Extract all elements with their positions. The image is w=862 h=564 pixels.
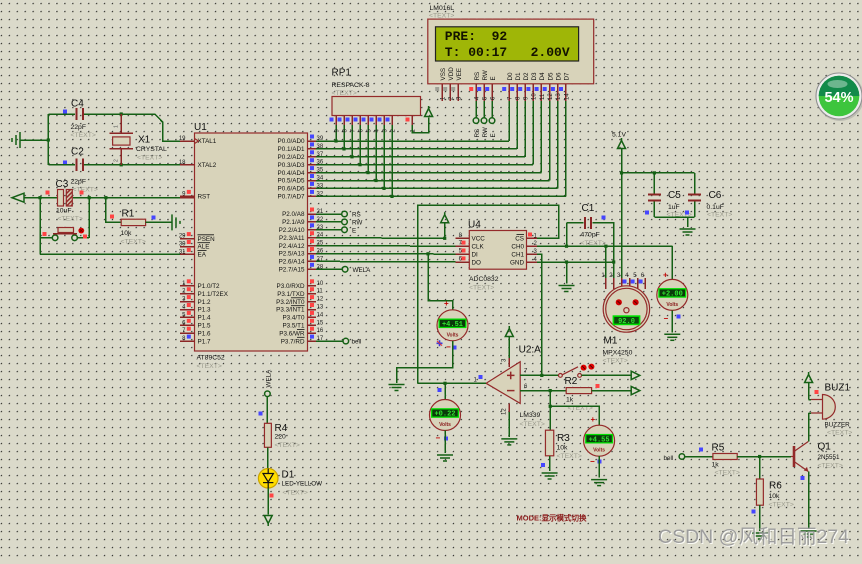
junction M1 pin1/CH0 — [604, 245, 607, 248]
svg-text:<TEXT>: <TEXT> — [769, 502, 794, 509]
svg-text:+: + — [591, 415, 596, 424]
switch (on comparator output 7) — [559, 364, 595, 378]
voltmeter +0.22 (comparator out) — [430, 400, 461, 431]
svg-text:AT89C52: AT89C52 — [197, 355, 225, 362]
pressure sensor M1 MPX4250 — [601, 246, 649, 364]
svg-text:P3.1/TXD: P3.1/TXD — [277, 291, 305, 298]
svg-text:P0.3/AD3: P0.3/AD3 — [278, 162, 305, 169]
crystal X1 — [109, 114, 167, 165]
svg-text:−: − — [446, 343, 451, 352]
svg-text:RS: RS — [474, 129, 481, 138]
svg-text:<TEXT>: <TEXT> — [603, 358, 628, 365]
svg-text:−: − — [590, 457, 595, 466]
wire LCD D7 column — [565, 101, 567, 196]
svg-text:P3.4/T0: P3.4/T0 — [282, 315, 305, 322]
node RS terminal (U1 side) — [342, 211, 348, 217]
junction RP1/P0.0 — [334, 139, 337, 142]
wire U4 CS to comparator output — [418, 205, 559, 383]
svg-text:12: 12 — [548, 93, 554, 100]
junction pin6/R3 branch — [549, 389, 552, 392]
svg-text:P3.0/RXD: P3.0/RXD — [277, 283, 305, 290]
svg-text:VSS: VSS — [440, 68, 447, 81]
capacitor C3 (polarized 10uF) — [56, 179, 83, 223]
wire C4 left — [48, 113, 75, 115]
wire RP1 pin1 to power — [412, 117, 429, 132]
svg-text:D5: D5 — [547, 72, 554, 81]
wire RP1 pin 6 drop — [359, 125, 361, 165]
wire R3 to ground — [549, 456, 551, 471]
wire voltmeter to ground — [444, 431, 446, 454]
wire LCD D6 column — [557, 101, 559, 188]
node RW terminal — [481, 118, 487, 124]
resistor R2 — [565, 376, 593, 412]
svg-text:VDD: VDD — [448, 67, 455, 81]
svg-text:CS: CS — [515, 236, 524, 243]
svg-text:<TEXT>: <TEXT> — [827, 430, 852, 437]
svg-text:P1.3: P1.3 — [198, 307, 211, 314]
wire power to VCC junction — [444, 223, 446, 239]
svg-text:16: 16 — [317, 328, 324, 334]
wire P3.7 to bell terminal — [316, 340, 343, 342]
push button (reset) — [40, 228, 89, 241]
svg-text:RW: RW — [482, 127, 489, 137]
node WELA terminal (LED side) — [265, 391, 271, 397]
wire C1 right to GND row / M1 pin2 — [593, 223, 614, 288]
svg-text:10k: 10k — [121, 230, 133, 237]
svg-text:12: 12 — [317, 297, 324, 303]
wire pin6 to R2 — [520, 390, 566, 392]
svg-text:54%: 54% — [824, 90, 853, 106]
svg-text:bell: bell — [664, 455, 674, 462]
wire RP1 pin 3 drop — [383, 125, 385, 188]
svg-text:P0.5/AD5: P0.5/AD5 — [278, 178, 305, 185]
svg-text:RW: RW — [482, 70, 489, 80]
svg-text:Volts: Volts — [666, 302, 678, 308]
junction RP1/P0.2 — [350, 155, 353, 158]
svg-text:D6: D6 — [556, 72, 563, 81]
junction C3/EA branch — [38, 196, 41, 199]
svg-text:19: 19 — [179, 136, 186, 142]
svg-text:D7: D7 — [564, 72, 571, 81]
svg-text:<TEXT>: <TEXT> — [73, 187, 98, 194]
junction output/voltmeter — [443, 382, 446, 385]
svg-text:<TEXT>: <TEXT> — [715, 470, 740, 477]
svg-text:R6: R6 — [769, 481, 782, 492]
ground (U2 pin12) — [501, 439, 517, 445]
ground (R6) — [752, 533, 768, 539]
wire P2 to RS terminal — [316, 213, 342, 215]
resistor R1 — [106, 198, 172, 246]
wire to ground — [687, 217, 689, 227]
svg-text:13: 13 — [556, 93, 562, 100]
svg-text:M1: M1 — [604, 336, 618, 347]
wire +4.55 voltmeter to ground — [598, 456, 600, 477]
svg-text:P0.1/AD1: P0.1/AD1 — [278, 146, 305, 153]
svg-text:<TEXT>: <TEXT> — [121, 239, 146, 246]
junction RP1/P0.6 — [382, 187, 385, 190]
svg-text:22pF: 22pF — [71, 124, 87, 131]
svg-text:P2.7/A15: P2.7/A15 — [279, 267, 305, 274]
junction button branch — [88, 196, 91, 199]
wire LCD RW to terminal — [483, 101, 485, 118]
wire RP1 pin 4 drop — [375, 125, 377, 181]
wire pin3 to power — [508, 337, 510, 359]
svg-text:CH0: CH0 — [511, 244, 524, 251]
LCD display LM016L — [428, 5, 594, 101]
resistor pack RP1 RESPACK-8 — [330, 68, 421, 133]
svg-text:+4.51: +4.51 — [442, 321, 463, 329]
voltmeter +4.51 (DI line) — [437, 310, 468, 341]
power terminal (BUZ1) — [805, 372, 813, 383]
wire to +4.55 voltmeter — [550, 406, 599, 425]
svg-text:+: + — [663, 271, 668, 280]
resistor R5 — [712, 443, 740, 477]
wire C2 right to XTAL2 — [84, 164, 180, 166]
resistor R6 — [756, 479, 793, 509]
ground (+2.00 voltmeter) — [664, 334, 680, 340]
svg-text:14: 14 — [564, 93, 570, 100]
svg-text:11: 11 — [540, 93, 546, 100]
wire RP1 pin 7 drop — [351, 125, 353, 157]
wire CH0 to voltmeter — [671, 246, 673, 279]
wire R6 to ground — [759, 505, 761, 531]
wire output to voltmeter + — [444, 383, 446, 399]
capacitor C1 470pF — [581, 203, 606, 247]
wire to R6 — [759, 457, 761, 480]
svg-text:U2:A: U2:A — [519, 345, 542, 356]
svg-text:<TEXT>: <TEXT> — [58, 216, 83, 223]
ground (C5/C6) — [680, 229, 696, 235]
svg-text:GND: GND — [510, 259, 524, 266]
wire left vertical to EA — [39, 198, 41, 255]
svg-text:P2.3/A11: P2.3/A11 — [279, 235, 305, 242]
svg-text:14: 14 — [317, 312, 324, 318]
svg-text:10k: 10k — [557, 445, 569, 452]
junction C5 top — [653, 171, 656, 174]
wire pin27 to U4 DO — [316, 260, 455, 263]
wire P0.1 bus row — [316, 148, 517, 150]
54% progress button — [816, 73, 862, 121]
node bell terminal (R5 side) — [679, 454, 685, 460]
svg-text:P1.6: P1.6 — [198, 330, 211, 337]
wire P0.5 bus row — [316, 180, 550, 182]
svg-text:E: E — [490, 76, 497, 80]
junction DI/voltmeter branch — [426, 252, 429, 255]
svg-text:C1: C1 — [582, 203, 595, 214]
wire pin25 to U4 CLK — [316, 245, 455, 248]
wire Q1 emitter to ground — [808, 472, 810, 530]
svg-text:P0.6/AD6: P0.6/AD6 — [278, 186, 305, 193]
wire 5.1V rail down to M1 pin3 — [621, 149, 623, 288]
wire P0.2 bus row — [316, 156, 525, 158]
wire Q1 collector to buzzer — [808, 413, 810, 442]
capacitor C6 0.1uF — [688, 173, 732, 219]
svg-text:ALE: ALE — [198, 244, 210, 251]
svg-text:P3.7/RD: P3.7/RD — [281, 338, 305, 345]
svg-text:30: 30 — [179, 242, 186, 248]
wire LCD D3 column — [532, 101, 534, 165]
wire bell to R5 — [685, 456, 713, 458]
svg-text:−: − — [664, 314, 669, 323]
wire CH1 to comparator pin7 — [537, 254, 542, 375]
svg-text:E: E — [352, 227, 356, 234]
svg-text:XTAL2: XTAL2 — [198, 162, 217, 169]
svg-text:<TEXT>: <TEXT> — [283, 490, 308, 497]
svg-text:R2: R2 — [565, 376, 578, 387]
svg-text:P2.0/A8: P2.0/A8 — [282, 211, 305, 218]
svg-text:RS: RS — [474, 72, 481, 81]
svg-text:MODE:显示模式切换: MODE:显示模式切换 — [517, 513, 587, 523]
svg-text:22pF: 22pF — [71, 179, 87, 186]
svg-text:<TEXT>: <TEXT> — [469, 285, 494, 292]
power terminal (D1 cathode, down) — [264, 516, 272, 527]
ground (Q1 emitter) — [801, 531, 817, 537]
wire LCD D0 column — [508, 101, 510, 141]
node output arrow (pin6) — [631, 386, 640, 394]
svg-text:<TEXT>: <TEXT> — [581, 240, 606, 247]
wire buzzer pin2 — [809, 412, 811, 414]
svg-text:P1.0/T2: P1.0/T2 — [198, 283, 221, 290]
wire to C1 left plate — [567, 222, 584, 224]
wire pin24 to U4 VCC node — [316, 237, 445, 240]
svg-text:D2: D2 — [523, 72, 530, 81]
wire P0.7 bus row — [316, 195, 566, 197]
wire WELA to R4 — [266, 397, 268, 424]
svg-text:<TEXT>: <TEXT> — [332, 90, 357, 97]
svg-text:T: 00:17 2.00V: T: 00:17 2.00V — [445, 45, 570, 60]
svg-text:12: 12 — [502, 408, 508, 415]
svg-text:EA: EA — [198, 252, 207, 259]
svg-text:CH1: CH1 — [511, 251, 524, 258]
svg-text:13: 13 — [317, 305, 324, 311]
svg-text:D1: D1 — [282, 470, 295, 481]
node RST input arrow terminal — [12, 193, 24, 202]
svg-text:P1.7: P1.7 — [198, 338, 211, 345]
junction GND/ground drop — [565, 260, 568, 263]
ground (+4.51 voltmeter) — [389, 385, 405, 391]
svg-text:RW: RW — [352, 219, 362, 226]
svg-text:10uF: 10uF — [56, 208, 72, 215]
svg-text:11: 11 — [317, 289, 324, 295]
svg-text:Q1: Q1 — [818, 442, 832, 453]
ground (left of C4/C2) — [12, 132, 20, 148]
junction C1/CH0 — [565, 245, 568, 248]
power terminal (RP1 pull-up) — [425, 106, 433, 117]
svg-text:RST: RST — [198, 194, 211, 201]
svg-text:DO: DO — [472, 259, 482, 266]
power terminal 5.1V — [618, 138, 626, 149]
wire DI to +4.51 voltmeter — [428, 254, 453, 310]
junction RP1/P0.7 — [390, 195, 393, 198]
svg-text:P2.1/A9: P2.1/A9 — [282, 219, 305, 226]
svg-text:WELA: WELA — [353, 267, 372, 274]
junction R3/voltmeter branch — [549, 405, 552, 408]
wire C4 right to crystal top — [84, 113, 155, 115]
wire EA net — [40, 253, 180, 255]
svg-text:bell: bell — [352, 339, 362, 346]
junction 5.1V/C5C6 — [620, 171, 623, 174]
svg-text:C6: C6 — [709, 190, 722, 201]
junction pin7/CH1 — [540, 374, 543, 377]
wire R2 to output arrow — [592, 390, 631, 392]
wire GND to ground — [566, 262, 568, 284]
wire R5 to Q1 base — [737, 456, 791, 458]
wire P2 to E terminal — [316, 229, 342, 231]
svg-text:P3.3/INT1: P3.3/INT1 — [276, 307, 305, 314]
svg-text:P0.0/AD0: P0.0/AD0 — [278, 138, 305, 145]
svg-text:P1.1/T2EX: P1.1/T2EX — [198, 291, 229, 298]
svg-text:P2.4/A12: P2.4/A12 — [279, 243, 305, 250]
svg-text:MPX4250: MPX4250 — [603, 350, 633, 357]
svg-text:PRE: 92: PRE: 92 — [445, 29, 508, 44]
wire buzzer pin1 — [809, 399, 811, 401]
wire LCD D2 column — [524, 101, 526, 157]
wire P2.7 to WELA terminal — [316, 268, 342, 270]
wire LCD E to terminal — [491, 101, 493, 118]
svg-text:C2: C2 — [71, 147, 84, 158]
svg-text:10k: 10k — [769, 493, 781, 500]
svg-text:<TEXT>: <TEXT> — [557, 453, 582, 460]
wire P2 to RW terminal — [316, 221, 342, 223]
svg-text:1uF: 1uF — [668, 204, 680, 211]
wire P0.6 bus row — [316, 187, 558, 189]
wire C5 C6 bottom rail — [654, 216, 694, 218]
wire power to buzzer — [808, 383, 810, 400]
svg-text:10: 10 — [317, 281, 324, 287]
LED D1 LED-YELLOW — [258, 469, 322, 497]
svg-text:C3: C3 — [56, 179, 69, 190]
svg-text:X1: X1 — [138, 135, 151, 146]
capacitor C4 — [71, 99, 96, 140]
ground (right of R1, sideways) — [172, 214, 180, 230]
svg-text:P2.2/A10: P2.2/A10 — [279, 227, 305, 234]
node WELA terminal (U1 side) — [342, 267, 348, 273]
svg-text:+: + — [444, 299, 449, 308]
svg-text:P0.4/AD4: P0.4/AD4 — [278, 170, 305, 177]
svg-text:C5: C5 — [668, 190, 681, 201]
wire 5.1V to C5 C6 top — [622, 172, 695, 174]
svg-text:P0.7/AD7: P0.7/AD7 — [278, 194, 305, 201]
resistor R3 — [545, 430, 581, 460]
wire U4 GND row — [537, 261, 614, 263]
wire C1 left drop — [566, 223, 568, 246]
svg-text:1k: 1k — [566, 397, 574, 404]
svg-text:CRYSTAL: CRYSTAL — [136, 146, 167, 153]
svg-text:<TEXT>: <TEXT> — [429, 13, 454, 20]
wire LCD D1 column — [516, 101, 518, 149]
svg-text:Volts: Volts — [447, 332, 459, 338]
svg-text:BUZZER: BUZZER — [825, 422, 851, 429]
svg-text:RESPACK-8: RESPACK-8 — [332, 82, 370, 89]
junction crystal bottom — [120, 163, 123, 166]
capacitor C2 — [71, 147, 98, 194]
wire P0.0 bus row — [316, 140, 509, 142]
svg-text:DI: DI — [472, 251, 479, 258]
wire pin7 to switch — [520, 374, 559, 376]
node E terminal (U1 side) — [342, 227, 348, 233]
wire comparator output — [418, 382, 487, 384]
svg-text:2N5551: 2N5551 — [818, 454, 841, 461]
svg-text:Volts: Volts — [439, 422, 451, 428]
junction GND row / M1 pin2 — [612, 260, 615, 263]
resistor R4 — [264, 423, 299, 449]
svg-text:220: 220 — [275, 434, 287, 441]
wire voltmeter - to ground — [397, 341, 453, 383]
svg-text:D0: D0 — [507, 72, 514, 81]
svg-text:E: E — [490, 133, 497, 137]
wire RP1 pin 8 drop — [343, 125, 345, 149]
wire RP1 pin 5 drop — [367, 125, 369, 173]
svg-text:RS: RS — [352, 212, 361, 219]
buzzer BUZ1 — [811, 383, 852, 437]
power terminal (U4 VCC) — [441, 212, 449, 223]
svg-text:+4.55: +4.55 — [589, 436, 610, 444]
svg-text:<TEXT>: <TEXT> — [71, 132, 96, 139]
wire pin12 to ground — [508, 412, 510, 437]
junction RP1/P0.5 — [374, 179, 377, 182]
svg-text:2: 2 — [114, 159, 120, 162]
wire RP1 pin 2 drop — [391, 125, 393, 196]
svg-text:ADC0832: ADC0832 — [469, 276, 499, 283]
svg-text:P3.5/T1: P3.5/T1 — [282, 323, 305, 330]
svg-text:R4: R4 — [275, 423, 288, 434]
wire LCD D5 column — [549, 101, 551, 181]
svg-text:VEE: VEE — [456, 68, 463, 81]
wire P0.4 bus row — [316, 172, 541, 174]
wire pin6 down to R3 — [549, 391, 551, 431]
svg-text:P1.5: P1.5 — [198, 323, 211, 330]
svg-text:P0.2/AD2: P0.2/AD2 — [278, 154, 305, 161]
svg-text:1: 1 — [114, 125, 120, 128]
junction RP1/P0.1 — [342, 147, 345, 150]
transistor Q1 2N5551 — [791, 442, 843, 472]
wire voltmeter to ground — [671, 310, 673, 332]
svg-text:Volts: Volts — [593, 448, 605, 454]
svg-text:LM016L: LM016L — [430, 5, 455, 12]
wire to XTAL1 — [155, 114, 180, 141]
wire C3 to RST pin — [73, 197, 180, 199]
wire C4-C2 left vertical — [47, 114, 49, 165]
voltmeter +2.00 (CH0) — [657, 279, 688, 310]
node E terminal — [489, 118, 495, 124]
svg-text:5.1V: 5.1V — [612, 132, 626, 139]
svg-text:U4: U4 — [468, 220, 481, 231]
svg-text:+0.22: +0.22 — [434, 411, 455, 419]
svg-text:VCC: VCC — [472, 236, 486, 243]
ADC U4 ADC0832 — [455, 220, 537, 292]
svg-text:PSEN: PSEN — [198, 236, 216, 243]
wire LCD D4 column — [540, 101, 542, 173]
svg-text:0.1uF: 0.1uF — [707, 204, 724, 211]
svg-text:CSDN @风和日丽274: CSDN @风和日丽274 — [658, 526, 849, 548]
ground (R3) — [542, 473, 558, 479]
junction VCC/power — [443, 237, 446, 240]
svg-text:R5: R5 — [712, 443, 725, 454]
svg-text:XTAL1: XTAL1 — [198, 138, 217, 145]
svg-text:92.0: 92.0 — [618, 318, 635, 326]
svg-text:P3.2/INT0: P3.2/INT0 — [276, 299, 305, 306]
node output arrow (pin7) — [631, 371, 640, 379]
node bell terminal (U1 side) — [343, 338, 349, 344]
wire LCD RS to terminal — [475, 101, 477, 118]
wire pin26 to U4 DI — [316, 253, 455, 256]
svg-text:470pF: 470pF — [581, 232, 600, 239]
svg-text:BUZ1: BUZ1 — [825, 383, 851, 394]
junction crystal top — [120, 112, 123, 115]
svg-text:<TEXT>: <TEXT> — [275, 442, 300, 449]
wire R4 to D1 — [267, 447, 269, 468]
svg-text:C4: C4 — [71, 99, 84, 110]
